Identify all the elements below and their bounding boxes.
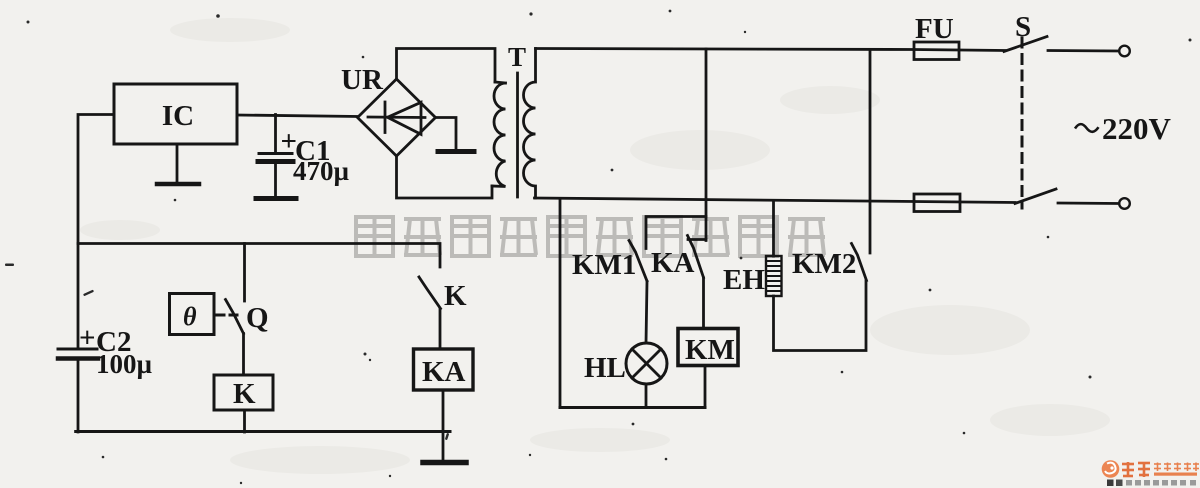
transformer T primary winding — [492, 82, 506, 187]
switch S bottom blade — [1015, 189, 1056, 204]
svg-text:KM2: KM2 — [792, 248, 856, 280]
svg-text:KA: KA — [651, 247, 695, 279]
heater EH — [772, 201, 775, 256]
svg-text:HL: HL — [584, 352, 626, 384]
ground right of bridge — [438, 149, 474, 154]
terminal top — [1119, 46, 1130, 57]
label 220V — [1075, 124, 1099, 132]
switch Q — [243, 244, 246, 302]
switch S top blade — [1004, 37, 1047, 52]
svg-text:100µ: 100µ — [96, 349, 153, 379]
top rail wire secondary to FU — [536, 49, 915, 50]
capacitor C1 — [274, 115, 277, 153]
control bus wire y=245 — [78, 244, 440, 268]
contact KM2 — [852, 244, 867, 281]
watermark — [356, 217, 825, 256]
svg-text:IC: IC — [162, 100, 194, 132]
contact KM1 — [629, 241, 647, 282]
switch K — [419, 277, 441, 309]
dashed link sensor to Q — [217, 314, 238, 317]
svg-text:Q: Q — [246, 302, 269, 334]
lamp HL — [626, 343, 667, 384]
wire EH to KM2 — [774, 281, 867, 351]
bridge rectifier UR — [358, 79, 436, 156]
transformer core — [516, 73, 519, 197]
wire IC right to bridge — [237, 115, 358, 117]
svg-text:T: T — [508, 42, 526, 72]
logo — [1102, 460, 1199, 486]
switch S linkage dashed — [1021, 38, 1024, 208]
fuse FU top — [914, 50, 1005, 51]
branch bottom bus y=407 — [560, 406, 705, 409]
temperature sensor box — [170, 294, 215, 335]
svg-text:K: K — [444, 280, 467, 312]
transformer T secondary winding — [524, 49, 536, 199]
wire bridge top to transformer primary — [397, 49, 496, 83]
svg-text:K: K — [233, 378, 256, 410]
ground under IC — [176, 144, 179, 183]
ground under KA — [423, 460, 466, 466]
terminal bottom — [1119, 198, 1130, 209]
contactor coil KM box — [678, 329, 738, 366]
branch wire x=560 — [559, 200, 562, 407]
svg-text:FU: FU — [915, 13, 954, 45]
svg-text:KM: KM — [685, 334, 735, 366]
svg-text:EH: EH — [723, 264, 765, 296]
svg-text:S: S — [1015, 11, 1031, 43]
svg-text:220V: 220V — [1102, 111, 1172, 146]
svg-text:θ: θ — [183, 302, 197, 331]
fuse bottom — [914, 202, 1016, 203]
svg-text:470µ: 470µ — [293, 156, 350, 186]
capacitor C2 — [58, 348, 97, 351]
svg-text:KM1: KM1 — [572, 249, 636, 281]
wire below C2 down to bottom bus — [77, 360, 80, 432]
vertical wire x=870 top rail to KM2 contact — [869, 50, 872, 254]
svg-text:KA: KA — [422, 356, 466, 388]
relay coil KA box — [414, 349, 474, 390]
ground under C1 — [256, 196, 296, 201]
wire KA box to ground — [442, 390, 445, 460]
relay coil K box — [214, 375, 273, 410]
bracket wire for KM1 contact — [646, 217, 706, 249]
vertical wire x=706 top rail to KA contact — [705, 49, 708, 241]
bottom rail wire — [535, 198, 915, 202]
svg-text:+: + — [79, 322, 96, 354]
wire IC left to left rail — [78, 115, 114, 349]
IC box — [114, 84, 237, 144]
bottom bus wire y=431 — [76, 430, 450, 433]
wire bridge bottom to transformer primary — [397, 156, 493, 198]
wire bridge right to ground — [436, 118, 457, 150]
svg-text:UR: UR — [341, 64, 384, 96]
contact KA — [688, 238, 706, 241]
